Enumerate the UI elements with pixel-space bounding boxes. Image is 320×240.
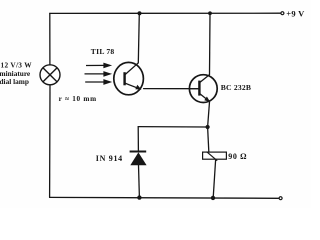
svg-text:BC 232B: BC 232B bbox=[221, 83, 251, 92]
svg-text:12 V/3 W: 12 V/3 W bbox=[1, 61, 33, 70]
svg-text:dial lamp: dial lamp bbox=[0, 77, 29, 86]
svg-text:r ≈ 10 mm: r ≈ 10 mm bbox=[59, 95, 97, 103]
svg-text:IN 914: IN 914 bbox=[96, 154, 123, 163]
svg-text:90 Ω: 90 Ω bbox=[228, 152, 247, 161]
svg-text:TIL 78: TIL 78 bbox=[91, 47, 115, 56]
svg-text:+9 V: +9 V bbox=[286, 9, 305, 19]
